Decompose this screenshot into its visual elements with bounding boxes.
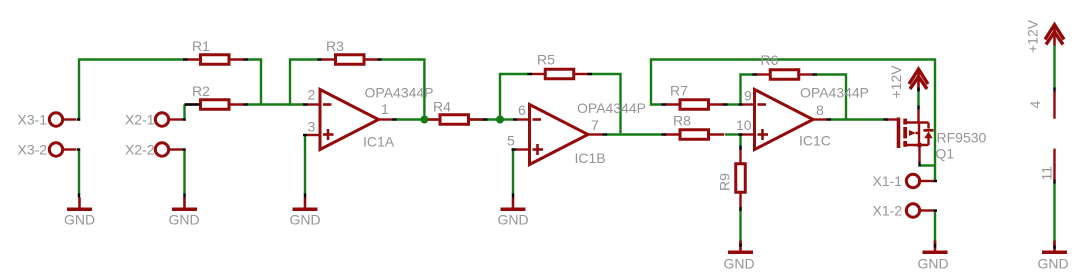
svg-text:7: 7 (591, 117, 599, 133)
svg-text:IC1B: IC1B (575, 150, 606, 166)
svg-text:R5: R5 (537, 52, 555, 68)
svg-text:IC1A: IC1A (363, 134, 395, 150)
svg-text:X2-1: X2-1 (125, 112, 155, 128)
svg-text:8: 8 (816, 102, 824, 118)
svg-text:OPA4344P: OPA4344P (365, 85, 434, 101)
svg-text:R8: R8 (673, 113, 691, 129)
svg-text:GND: GND (918, 256, 949, 272)
svg-text:11: 11 (1039, 166, 1055, 181)
svg-text:X1-1: X1-1 (873, 173, 903, 189)
svg-text:R4: R4 (433, 99, 451, 115)
svg-text:RF9530: RF9530 (937, 130, 987, 146)
svg-text:GND: GND (169, 212, 200, 228)
svg-text:R3: R3 (326, 38, 344, 54)
svg-text:2: 2 (308, 87, 316, 103)
svg-text:R1: R1 (192, 38, 210, 54)
svg-text:6: 6 (518, 102, 526, 118)
svg-text:GND: GND (64, 212, 95, 228)
svg-text:+12V: +12V (888, 65, 904, 99)
svg-text:5: 5 (507, 133, 515, 149)
svg-text:GND: GND (1038, 256, 1069, 272)
svg-text:X2-2: X2-2 (125, 142, 155, 158)
svg-text:+12V: +12V (1025, 19, 1041, 53)
svg-text:4: 4 (1027, 101, 1043, 109)
svg-text:X1-2: X1-2 (873, 203, 903, 219)
svg-text:OPA4344P: OPA4344P (800, 85, 869, 101)
svg-text:Q1: Q1 (936, 146, 955, 162)
svg-text:OPA4344P: OPA4344P (577, 100, 646, 116)
svg-text:GND: GND (290, 212, 321, 228)
svg-text:R9: R9 (717, 173, 733, 191)
svg-text:R7: R7 (670, 83, 688, 99)
svg-text:R6: R6 (761, 52, 779, 68)
svg-text:3: 3 (308, 119, 316, 135)
svg-text:9: 9 (744, 88, 752, 104)
svg-text:R2: R2 (192, 83, 210, 99)
svg-text:X3-2: X3-2 (18, 142, 48, 158)
svg-text:IC1C: IC1C (799, 133, 831, 149)
svg-text:1: 1 (381, 101, 389, 117)
svg-text:GND: GND (498, 212, 529, 228)
svg-text:GND: GND (724, 256, 755, 272)
svg-text:X3-1: X3-1 (18, 112, 48, 128)
svg-text:10: 10 (736, 117, 752, 133)
